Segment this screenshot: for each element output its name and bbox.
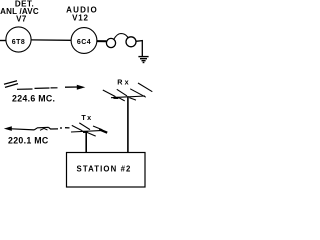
svg-text:STATION #2: STATION #2 (77, 164, 132, 173)
svg-text:6C4: 6C4 (77, 39, 91, 46)
svg-text:6T8: 6T8 (12, 39, 26, 46)
svg-text:220.1 MC: 220.1 MC (8, 135, 49, 145)
svg-text:Tx: Tx (81, 113, 92, 122)
svg-text:Rx: Rx (117, 78, 131, 87)
svg-text:224.6 MC.: 224.6 MC. (12, 93, 55, 103)
svg-text:V7: V7 (16, 15, 27, 24)
svg-text:V12: V12 (72, 14, 89, 23)
